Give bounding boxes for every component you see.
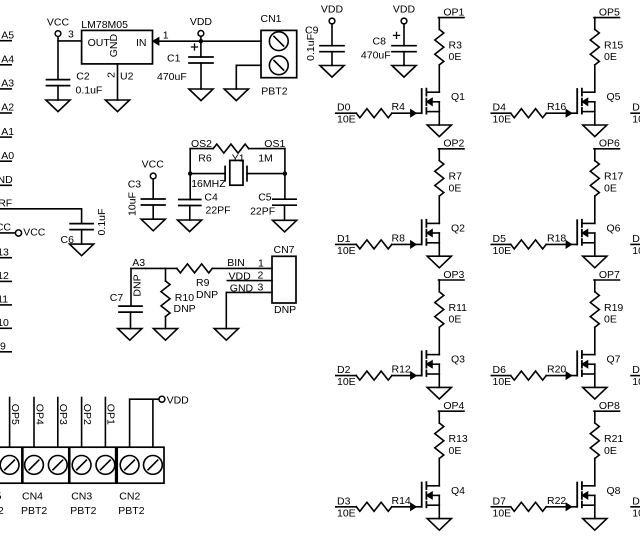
wire OP3 to R11 xyxy=(438,280,440,292)
svg-text:A5: A5 xyxy=(1,29,14,41)
svg-text:Q5: Q5 xyxy=(607,91,621,103)
ground (C9) xyxy=(320,66,344,78)
svg-text:0E: 0E xyxy=(449,445,462,457)
svg-text:R17: R17 xyxy=(604,171,623,183)
svg-text:0E: 0E xyxy=(604,51,617,63)
transistor Q5 (N-MOSFET) xyxy=(576,89,578,113)
power stub VCC (left edge) xyxy=(0,232,15,234)
wire R19 to Q7 drain xyxy=(594,327,596,354)
ground (Q4) xyxy=(427,519,451,531)
wire R7 to Q2 drain xyxy=(438,196,440,223)
svg-text:R18: R18 xyxy=(547,232,566,244)
wire R21 to Q8 drain xyxy=(594,459,596,486)
svg-text:22PF: 22PF xyxy=(206,205,231,217)
power symbol VDD (C9) xyxy=(329,18,335,24)
svg-text:CN7: CN7 xyxy=(274,244,295,256)
svg-text:D10: D10 xyxy=(632,364,640,376)
power symbol VCC (C3) xyxy=(150,173,156,179)
wire R22 to Q8 gate xyxy=(546,506,577,508)
connector CN3 (terminal block) xyxy=(70,447,116,483)
power symbol VCC (regulator input) xyxy=(55,31,61,37)
ground (CN1) xyxy=(224,89,248,101)
wire C5 to ground xyxy=(284,205,286,220)
svg-text:OP6: OP6 xyxy=(599,138,620,150)
junction OS1 xyxy=(283,171,287,175)
ground (Q7) xyxy=(583,387,607,399)
svg-text:OP3: OP3 xyxy=(443,269,464,281)
svg-text:10E: 10E xyxy=(337,114,356,126)
CN7 pin 3 GND wire to ground xyxy=(226,292,272,328)
wire C8 to ground xyxy=(403,52,405,66)
svg-text:OP4: OP4 xyxy=(33,404,45,425)
svg-text:DNP: DNP xyxy=(132,274,144,296)
svg-text:VDD: VDD xyxy=(229,271,252,283)
svg-text:A0: A0 xyxy=(1,150,14,162)
wire D7 to R22 xyxy=(491,506,510,508)
svg-text:Y1: Y1 xyxy=(232,152,245,164)
svg-text:12: 12 xyxy=(0,270,9,282)
wire R15 to Q5 drain xyxy=(594,65,596,92)
ground (R10) xyxy=(153,329,177,341)
capacitor C5 22PF xyxy=(273,199,296,205)
svg-text:OUT: OUT xyxy=(88,37,111,49)
wire R14 to Q4 gate xyxy=(392,506,422,508)
svg-text:PBT2: PBT2 xyxy=(0,505,4,517)
svg-text:C2: C2 xyxy=(76,71,90,83)
resistor R15 0E xyxy=(590,29,599,65)
wire OS1 node down to C5 xyxy=(284,149,286,200)
wire OP2 to R7 xyxy=(438,149,440,161)
resistor R9 DNP xyxy=(177,264,213,273)
svg-text:10E: 10E xyxy=(493,245,512,257)
resistor R14 10E xyxy=(356,502,392,511)
capacitor C7 DNP xyxy=(119,306,142,312)
wire R16 to Q5 gate xyxy=(546,112,577,114)
svg-text:DNP: DNP xyxy=(174,303,196,315)
svg-text:10E: 10E xyxy=(632,507,640,519)
wire R12 to Q3 gate xyxy=(392,375,422,377)
svg-text:BIN: BIN xyxy=(227,257,245,269)
svg-text:1M: 1M xyxy=(258,153,273,165)
svg-text:R15: R15 xyxy=(604,39,623,51)
wire OP3 to terminal xyxy=(57,398,59,448)
power symbol VDD (C8) xyxy=(401,18,407,24)
ground (Q3) xyxy=(427,387,451,399)
resistor R18 10E xyxy=(511,240,547,249)
ground (CN7 pin3) xyxy=(214,329,238,341)
svg-text:10E: 10E xyxy=(337,376,356,388)
wire R11 to Q3 drain xyxy=(438,327,440,354)
wire VDD to C9 xyxy=(331,24,333,46)
arrow into Q3 gate xyxy=(411,373,416,379)
svg-text:A4: A4 xyxy=(1,54,14,66)
capacitor C9 xyxy=(320,46,344,52)
svg-text:R21: R21 xyxy=(604,433,623,445)
svg-text:D2: D2 xyxy=(337,364,351,376)
wire D1 to R8 xyxy=(336,243,357,245)
arrow into Q4 gate xyxy=(411,504,416,510)
wire R6 to OS1 xyxy=(249,148,264,150)
svg-text:R6: R6 xyxy=(198,153,212,165)
svg-text:VCC: VCC xyxy=(142,159,165,171)
resistor R21 0E xyxy=(590,423,599,459)
resistor R20 10E xyxy=(511,371,547,380)
svg-text:OP4: OP4 xyxy=(443,400,464,412)
svg-text:D11: D11 xyxy=(632,495,640,507)
svg-text:R14: R14 xyxy=(392,495,411,507)
capacitor C1 (electrolytic +) xyxy=(189,57,213,63)
svg-text:C7: C7 xyxy=(110,292,124,304)
svg-text:Q4: Q4 xyxy=(451,485,465,497)
resistor R17 0E xyxy=(590,161,599,197)
arrow into Q7 gate xyxy=(566,373,571,379)
wire R10 to ground xyxy=(165,316,167,328)
svg-text:Q3: Q3 xyxy=(451,354,465,366)
svg-text:1: 1 xyxy=(258,257,264,269)
connector CN2 (terminal block) xyxy=(117,447,164,483)
svg-text:D0: D0 xyxy=(337,102,351,114)
resistor R13 0E xyxy=(435,423,444,459)
svg-text:CC: CC xyxy=(0,222,11,234)
ground (Q6) xyxy=(583,256,607,268)
svg-text:U2: U2 xyxy=(120,71,134,83)
connector CN4 (terminal block) xyxy=(23,447,69,483)
CN3 screw terminal 1 xyxy=(72,456,91,475)
transistor Q1 (N-MOSFET) xyxy=(421,89,423,113)
svg-text:0E: 0E xyxy=(449,51,462,63)
connector CN7 xyxy=(272,256,296,303)
svg-text:DNP: DNP xyxy=(274,304,296,316)
svg-text:10E: 10E xyxy=(493,376,512,388)
ground (U2) xyxy=(105,100,129,112)
CN3 screw terminal 2 xyxy=(96,456,115,475)
wire CN2 terminals to VDD xyxy=(130,399,159,447)
svg-text:9: 9 xyxy=(0,341,6,353)
wire CN1 pin 2 to ground xyxy=(236,65,261,89)
svg-text:VCC: VCC xyxy=(23,227,46,239)
svg-text:VDD: VDD xyxy=(190,16,213,28)
CN2 screw terminal 2 xyxy=(144,456,163,475)
svg-text:13: 13 xyxy=(0,246,9,258)
wire OP4 to R13 xyxy=(438,411,440,423)
CN4 screw terminal 2 xyxy=(48,456,67,475)
resistor R12 10E xyxy=(356,371,392,380)
svg-text:470uF: 470uF xyxy=(361,50,391,62)
svg-text:RF: RF xyxy=(0,198,12,210)
wire down to R10 xyxy=(165,268,167,281)
svg-text:D1: D1 xyxy=(337,233,351,245)
svg-text:R13: R13 xyxy=(449,433,468,445)
wire OP2 to terminal xyxy=(81,398,83,448)
capacitor C4 22PF xyxy=(179,200,201,206)
wire VCC to C3 xyxy=(152,179,154,199)
svg-text:R3: R3 xyxy=(449,39,463,51)
wire OP5 to terminal xyxy=(9,398,11,448)
junction VDD node xyxy=(199,39,203,43)
svg-text:C3: C3 xyxy=(128,179,142,191)
power symbol VDD (regulator output) xyxy=(198,31,204,37)
wire OP5 to R15 xyxy=(594,18,596,30)
svg-text:10: 10 xyxy=(0,317,9,329)
wire A3 to R9 xyxy=(146,267,177,269)
resistor R4 10E xyxy=(356,109,392,118)
resistor R10 DNP xyxy=(161,281,170,317)
svg-text:2: 2 xyxy=(258,270,264,282)
wire R3 to Q1 drain xyxy=(438,65,440,92)
transistor Q2 (N-MOSFET) xyxy=(421,220,423,244)
svg-text:D8: D8 xyxy=(632,102,640,114)
ground (Q1) xyxy=(427,125,451,137)
wire OP4 to terminal xyxy=(33,398,35,448)
svg-text:PBT2: PBT2 xyxy=(118,505,144,517)
wire R4 to Q1 gate xyxy=(392,112,422,114)
wire OP7 to R19 xyxy=(594,280,596,292)
wire U2 IN to VDD node to CN1 xyxy=(153,40,261,42)
CN1 screw terminal 2 xyxy=(269,56,288,75)
arrow into Q8 gate xyxy=(566,504,571,510)
transistor Q6 (N-MOSFET) xyxy=(576,220,578,244)
svg-text:GND: GND xyxy=(230,283,254,295)
wire C9 to ground xyxy=(331,52,333,66)
wire C2 to ground xyxy=(57,86,59,100)
svg-text:10E: 10E xyxy=(632,114,640,126)
svg-text:VCC: VCC xyxy=(47,16,70,28)
connector CN5 (terminal block) xyxy=(0,447,22,483)
svg-text:D6: D6 xyxy=(493,364,507,376)
svg-text:R16: R16 xyxy=(547,101,566,113)
wire VDD node to C1 xyxy=(200,41,202,57)
wire R8 to Q2 gate xyxy=(392,243,422,245)
wire VDD to C8 xyxy=(403,24,405,46)
resistor R19 0E xyxy=(590,292,599,328)
capacitor C6 0.1uF xyxy=(70,224,93,230)
transistor Q8 (N-MOSFET) xyxy=(576,483,578,507)
svg-text:D9: D9 xyxy=(632,233,640,245)
svg-text:0.1uF: 0.1uF xyxy=(76,85,103,97)
svg-text:A3: A3 xyxy=(1,78,14,90)
svg-text:470uF: 470uF xyxy=(157,71,187,83)
svg-text:Q7: Q7 xyxy=(607,354,621,366)
svg-text:2: 2 xyxy=(106,72,118,78)
ground (Q8) xyxy=(583,519,607,531)
svg-text:C8: C8 xyxy=(373,35,387,47)
wire R17 to Q6 drain xyxy=(594,196,596,223)
ground (Q2) xyxy=(427,256,451,268)
wire AREF to C6 xyxy=(0,209,82,224)
svg-text:IN: IN xyxy=(136,37,147,49)
wire R20 to Q7 gate xyxy=(546,375,577,377)
capacitor C8 (electrolytic +) xyxy=(392,46,416,52)
wire OS2 node down to C4 xyxy=(189,149,191,200)
svg-text:CN3: CN3 xyxy=(71,491,92,503)
arrow into Q1 gate xyxy=(411,110,416,116)
resistor R7 0E xyxy=(435,161,444,197)
svg-text:0E: 0E xyxy=(449,314,462,326)
power symbol VDD (CN2) xyxy=(159,396,165,402)
ground (C1) xyxy=(189,89,213,101)
wire R13 to Q4 drain xyxy=(438,459,440,486)
svg-text:0E: 0E xyxy=(604,182,617,194)
svg-text:VDD: VDD xyxy=(321,4,344,16)
svg-text:C5: C5 xyxy=(258,191,272,203)
svg-text:10E: 10E xyxy=(337,245,356,257)
wire C1 to ground xyxy=(200,63,202,89)
CN1 screw terminal 1 xyxy=(269,32,288,51)
wire OP6 to R17 xyxy=(594,149,596,161)
svg-text:R12: R12 xyxy=(392,364,411,376)
ground (Q5) xyxy=(583,125,607,137)
svg-text:VDD: VDD xyxy=(167,395,190,407)
svg-text:R8: R8 xyxy=(392,232,406,244)
wire R9 to CN7 pin 1 (BIN) xyxy=(212,267,272,269)
svg-text:R11: R11 xyxy=(449,302,468,314)
svg-text:R7: R7 xyxy=(449,171,463,183)
svg-text:D4: D4 xyxy=(493,102,507,114)
svg-text:LM78M05: LM78M05 xyxy=(81,19,128,31)
ground (C6) xyxy=(70,244,94,256)
svg-text:CN2: CN2 xyxy=(119,491,140,503)
svg-text:A3: A3 xyxy=(132,257,145,269)
voltage regulator U2 LM78M05 xyxy=(82,30,153,64)
wire C3 to ground xyxy=(152,205,154,219)
resistor R8 10E xyxy=(356,240,392,249)
svg-text:D5: D5 xyxy=(493,233,507,245)
ground (C7) xyxy=(118,329,142,341)
svg-text:OP3: OP3 xyxy=(57,404,69,425)
ground (C3) xyxy=(141,219,165,231)
wire A3 down to C7 xyxy=(130,268,132,306)
svg-text:22PF: 22PF xyxy=(250,205,275,217)
svg-text:0.1uF: 0.1uF xyxy=(305,34,317,61)
wire OP1 to R3 xyxy=(438,18,440,30)
svg-text:10E: 10E xyxy=(493,114,512,126)
resistor R6 1M xyxy=(213,144,249,153)
svg-text:PBT2: PBT2 xyxy=(21,505,47,517)
svg-text:R10: R10 xyxy=(175,292,194,304)
wire D5 to R18 xyxy=(491,243,510,245)
svg-text:OP1: OP1 xyxy=(443,6,464,18)
transistor Q7 (N-MOSFET) xyxy=(576,351,578,375)
svg-text:R19: R19 xyxy=(604,302,623,314)
transistor Q4 (N-MOSFET) xyxy=(421,483,423,507)
wire VCC node down to C2 xyxy=(57,41,59,80)
svg-text:CN5: CN5 xyxy=(0,491,2,503)
wire U2 GND pin to ground xyxy=(117,64,119,100)
ground (C5) xyxy=(273,220,297,232)
resistor R22 10E xyxy=(511,502,547,511)
transistor Q3 (N-MOSFET) xyxy=(421,351,423,375)
svg-text:3: 3 xyxy=(258,282,264,294)
svg-text:OP1: OP1 xyxy=(105,404,117,425)
svg-text:OP7: OP7 xyxy=(599,269,620,281)
pin 1 arrow into IN xyxy=(153,38,158,44)
wire D3 to R14 xyxy=(336,506,357,508)
wire D0 to R4 xyxy=(336,112,357,114)
wire D6 to R20 xyxy=(491,375,510,377)
junction OS2 xyxy=(188,171,192,175)
svg-text:0E: 0E xyxy=(604,445,617,457)
ground (C4) xyxy=(178,220,202,232)
svg-text:OP8: OP8 xyxy=(599,400,620,412)
CN2 screw terminal 1 xyxy=(120,456,139,475)
wire D2 to R12 xyxy=(336,375,357,377)
svg-text:R4: R4 xyxy=(392,101,406,113)
svg-text:R9: R9 xyxy=(196,277,210,289)
svg-text:A2: A2 xyxy=(1,102,14,114)
wire C7 to ground xyxy=(130,312,132,329)
svg-text:0E: 0E xyxy=(604,314,617,326)
arrow into Q6 gate xyxy=(566,241,571,247)
ground (C2) xyxy=(46,100,70,112)
capacitor C3 xyxy=(141,199,165,205)
svg-text:16MHZ: 16MHZ xyxy=(191,178,226,190)
svg-text:1: 1 xyxy=(163,30,169,42)
resistor R11 0E xyxy=(435,292,444,328)
connector CN1 xyxy=(261,30,297,77)
svg-text:Q1: Q1 xyxy=(451,91,465,103)
arrow into Q5 gate xyxy=(566,110,571,116)
svg-text:10E: 10E xyxy=(632,376,640,388)
svg-text:11: 11 xyxy=(0,294,8,306)
wire R18 to Q6 gate xyxy=(546,243,577,245)
svg-text:Q8: Q8 xyxy=(607,485,621,497)
svg-text:10E: 10E xyxy=(632,245,640,257)
svg-text:CN4: CN4 xyxy=(22,491,43,503)
svg-text:R20: R20 xyxy=(547,364,566,376)
svg-text:CN1: CN1 xyxy=(261,13,282,25)
svg-text:0E: 0E xyxy=(449,182,462,194)
capacitor C2 xyxy=(47,80,70,86)
svg-text:OP5: OP5 xyxy=(9,404,21,425)
svg-text:10uF: 10uF xyxy=(126,192,138,216)
svg-text:PBT2: PBT2 xyxy=(70,505,96,517)
svg-text:Q2: Q2 xyxy=(451,222,465,234)
svg-text:R22: R22 xyxy=(547,495,566,507)
wire D4 to R16 xyxy=(491,112,510,114)
svg-text:D3: D3 xyxy=(337,495,351,507)
svg-text:10E: 10E xyxy=(337,507,356,519)
CN7 pin 2 VDD stub xyxy=(227,280,272,282)
svg-text:DNP: DNP xyxy=(196,289,218,301)
resistor R3 0E xyxy=(435,29,444,65)
svg-text:C1: C1 xyxy=(167,52,181,64)
wire OP1 to terminal xyxy=(104,398,106,448)
arrow into Q2 gate xyxy=(411,241,416,247)
svg-text:0.1uF: 0.1uF xyxy=(96,209,108,236)
svg-text:C4: C4 xyxy=(204,191,218,203)
wire OP8 to R21 xyxy=(594,411,596,423)
wire C4 to ground xyxy=(189,206,191,221)
wire VCC to U2 pin 3 xyxy=(58,37,82,41)
ground (C8) xyxy=(392,66,416,78)
crystal Y1 16MHZ xyxy=(190,173,225,175)
resistor R16 10E xyxy=(511,109,547,118)
CN5 screw terminal 2 xyxy=(0,456,19,475)
svg-text:OP5: OP5 xyxy=(599,6,620,18)
svg-text:3: 3 xyxy=(68,28,74,40)
svg-text:ND: ND xyxy=(0,174,13,186)
svg-text:PBT2: PBT2 xyxy=(261,86,287,98)
CN4 screw terminal 1 xyxy=(25,456,44,475)
svg-text:VDD: VDD xyxy=(393,4,416,16)
svg-text:OP2: OP2 xyxy=(443,138,464,150)
svg-text:A1: A1 xyxy=(1,126,14,138)
svg-text:D7: D7 xyxy=(493,495,507,507)
wire C6 to ground xyxy=(81,230,83,245)
svg-text:OP2: OP2 xyxy=(81,404,93,425)
svg-text:GND: GND xyxy=(108,34,120,58)
svg-text:Q6: Q6 xyxy=(607,222,621,234)
